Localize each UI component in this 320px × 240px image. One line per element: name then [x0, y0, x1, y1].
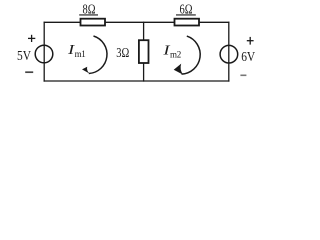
svg-text:m2: m2: [170, 49, 181, 59]
svg-text:5V: 5V: [17, 49, 31, 64]
svg-text:3Ω: 3Ω: [116, 46, 129, 61]
svg-text:m1: m1: [75, 49, 86, 59]
svg-text:6V: 6V: [241, 50, 255, 65]
